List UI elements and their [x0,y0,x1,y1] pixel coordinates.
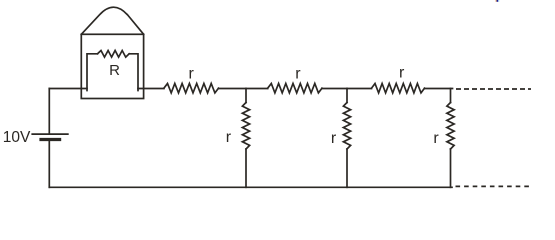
svg-text:10V: 10V [3,129,31,146]
wire: top rail from battery to device [49,88,87,90]
battery B1 10V [32,133,68,135]
node 1 / wire to r2 [246,88,268,90]
wire: r1 to node 1 [219,88,247,90]
resistor r3 (series) [372,84,425,93]
svg-text:R: R [109,62,120,79]
wire: left vertical from battery to bottom rail [48,141,50,188]
stray blue dot artifact [496,0,497,2]
svg-text:r: r [295,65,301,82]
dashed continuation top rail [456,88,531,90]
dashed continuation bottom rail [456,185,530,187]
svg-text:r: r [189,66,195,83]
bottom rail [49,186,452,188]
wire: left vertical from top rail to battery [48,89,50,134]
wire: r2 to node 2 [322,88,347,90]
shunt resistor r5 branch at node 2 [346,89,348,103]
svg-text:r: r [226,129,232,146]
resistor r1 (series) [164,84,219,93]
svg-text:r: r [331,130,337,147]
shunt resistor r6 branch at node 3 [450,89,452,103]
resistor r2 (series) [268,84,322,93]
wire: r3 to node 3 [425,88,453,90]
resistor R (inside device, bracket with zigzag) [87,51,138,91]
node 2 / wire to r3 [347,88,372,90]
svg-text:r: r [433,130,439,147]
device enclosure box [81,34,143,98]
shunt resistor r4 branch at node 1 [245,89,247,103]
wire: device to resistor r1 [138,88,164,90]
svg-text:r: r [399,65,405,82]
device roof (curved-top triangle) [81,7,143,34]
